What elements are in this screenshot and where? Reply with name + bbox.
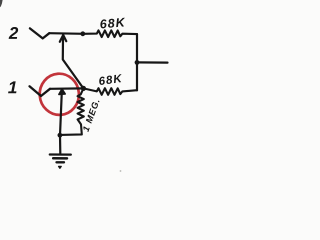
wire node D to ground — [59, 135, 61, 153]
value label 68K (R1) — [100, 18, 126, 29]
wiper arrow at input 2 — [60, 35, 67, 42]
scan speck — [120, 170, 122, 172]
resistor R3 1 MEG vertical — [60, 88, 84, 134]
wire selector diagonal node C to wiper 2 — [63, 38, 84, 89]
annotation red circle around input 1 wiper — [38, 72, 80, 116]
input jack J2 — [30, 28, 49, 38]
resistor R1 68K — [84, 30, 137, 37]
wire input 1 to node C — [50, 87, 83, 90]
wire wiper 1 shaft down to node D — [60, 90, 62, 136]
terminal label 1 — [8, 81, 16, 93]
terminal label 2 — [9, 27, 19, 39]
value label 1 MEG. (R3) — [82, 99, 99, 132]
input jack J1 — [30, 86, 51, 96]
node D junction dot — [58, 133, 63, 138]
wire right rail down from R1 — [136, 34, 138, 90]
resistor R2 68K — [83, 88, 137, 95]
wire input 2 to node A — [49, 32, 84, 35]
node A junction dot — [80, 31, 85, 36]
node C junction dot — [81, 86, 86, 91]
node B output junction dot — [135, 60, 140, 65]
scan mark top-left corner — [0, 0, 3, 7]
value label 68K (R2) — [99, 74, 123, 85]
wire output — [137, 61, 168, 63]
wiper arrow at input 1 — [59, 89, 65, 95]
ground symbol — [50, 155, 71, 169]
